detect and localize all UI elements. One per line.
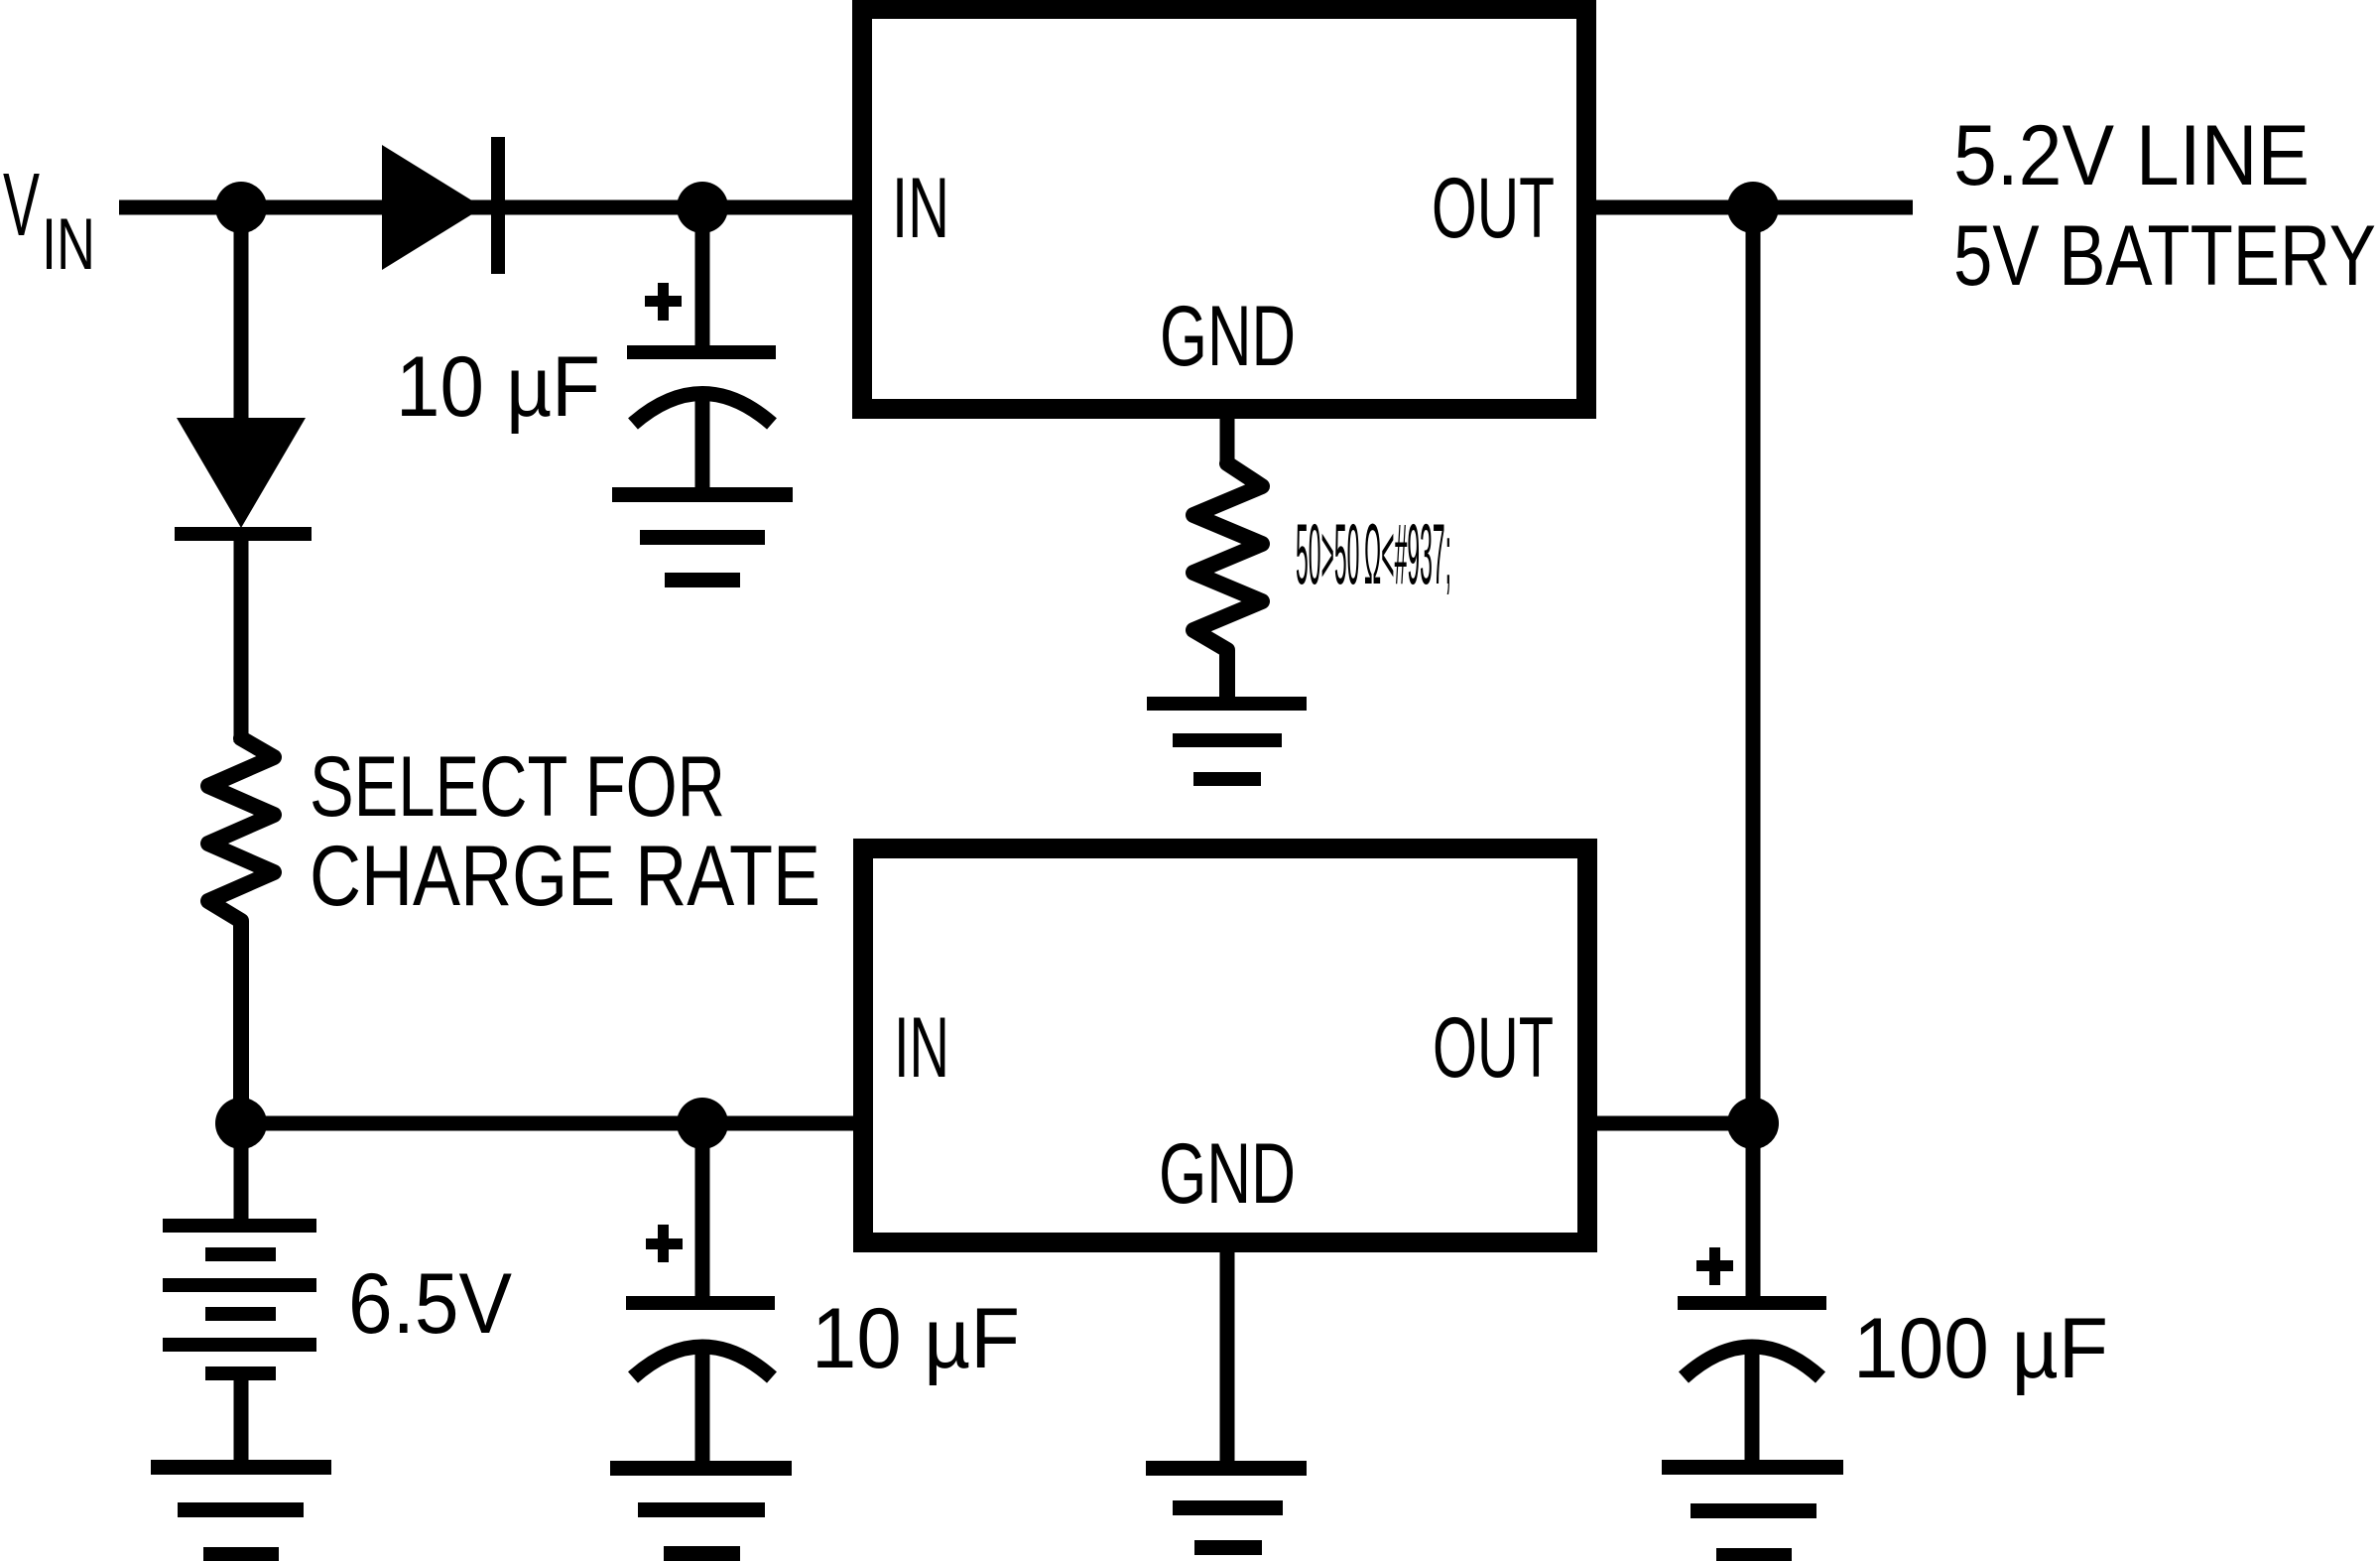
svg-text:5V BATTERY: 5V BATTERY <box>1953 208 2376 304</box>
ground (below battery) <box>151 1460 331 1561</box>
wire junction down to battery <box>234 1123 249 1223</box>
diode D2 (vertical, pointing down) <box>175 418 312 541</box>
wire right bus vertical <box>1746 207 1761 1123</box>
ground (below C1) <box>612 487 793 587</box>
svg-text:50>50 Ω<#937;: 50>50 Ω<#937; <box>1296 507 1451 602</box>
capacitor C3 100uF (polarized) <box>1678 1247 1826 1465</box>
svg-text:SELECT FOR: SELECT FOR <box>310 739 725 835</box>
wire OUT of U1 to the right <box>1596 200 1913 215</box>
svg-text:6.5V: 6.5V <box>348 1256 512 1352</box>
wire junction down to C1 <box>695 207 710 349</box>
diode D1 (horizontal, anode left) <box>382 137 505 274</box>
wire junction down to C2 <box>695 1123 710 1300</box>
wire D2 to R1 <box>234 537 249 742</box>
wire GND pin of U1 down to R2 <box>1220 409 1235 466</box>
battery BT1 6.5V <box>163 1219 316 1465</box>
capacitor C1 10uF (polarized) <box>627 283 776 491</box>
ground (below C3) <box>1662 1460 1843 1561</box>
note label SELECT FOR CHARGE RATE <box>310 739 820 924</box>
wire VIN junction down to D2 <box>234 207 249 422</box>
svg-text:OUT: OUT <box>1432 161 1555 256</box>
ground (below C2) <box>610 1461 792 1561</box>
resistor R1 (select for charge rate) <box>208 738 274 1123</box>
node junction dot at C2 <box>677 1098 728 1149</box>
regulator U2 (bottom box) <box>863 848 1587 1242</box>
svg-text:10 µF: 10 µF <box>812 1291 1020 1386</box>
svg-text:OUT: OUT <box>1433 1000 1554 1096</box>
svg-text:IN: IN <box>42 204 95 285</box>
wire GND pin of U2 down to ground <box>1220 1242 1235 1467</box>
resistor R2 50 ohm <box>1193 463 1262 700</box>
svg-text:100 µF: 100 µF <box>1853 1301 2108 1396</box>
node junction dot at VIN <box>215 182 267 233</box>
ground (below U2 GND) <box>1146 1461 1307 1555</box>
wire VIN to IN of top regulator <box>119 200 862 215</box>
node output labels <box>1953 108 2376 304</box>
wire OUT of U2 to right bus <box>1587 1116 1753 1131</box>
wire junction down to C3 <box>1746 1123 1761 1300</box>
svg-text:10 µF: 10 µF <box>396 339 600 435</box>
svg-text:CHARGE RATE: CHARGE RATE <box>310 829 820 924</box>
node junction dot battery <box>215 1098 267 1149</box>
node VIN label <box>3 156 95 285</box>
node junction dot at IN of top regulator <box>677 182 728 233</box>
regulator U1 (top box) <box>862 9 1586 409</box>
svg-text:IN: IN <box>892 161 949 256</box>
svg-text:5.2V LINE: 5.2V LINE <box>1953 108 2310 203</box>
svg-text:IN: IN <box>894 1000 949 1096</box>
svg-text:V: V <box>3 156 40 255</box>
svg-text:GND: GND <box>1160 289 1296 384</box>
svg-text:GND: GND <box>1159 1126 1296 1222</box>
capacitor C2 10uF (polarized) <box>626 1225 775 1465</box>
node junction dot at OUT of U2 <box>1727 1098 1779 1149</box>
wire lower horizontal to IN of U2 <box>241 1116 863 1131</box>
node junction dot at OUT bus <box>1727 182 1779 233</box>
ground (below R2) <box>1147 697 1307 786</box>
